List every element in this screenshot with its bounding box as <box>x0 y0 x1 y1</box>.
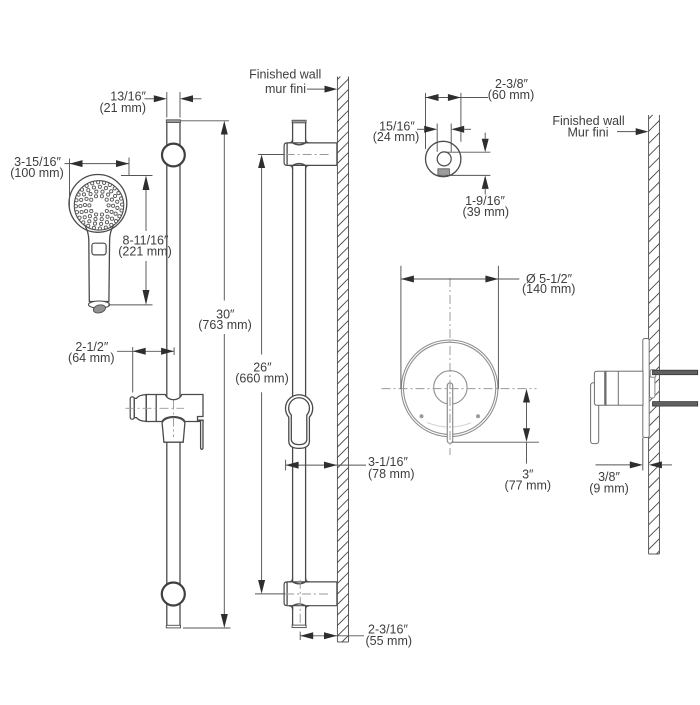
handle hub circle <box>434 371 467 404</box>
handle cap dark band <box>604 372 606 405</box>
holder horizontal centerline <box>126 407 185 409</box>
holder cup (cone mount, left) <box>130 397 134 419</box>
screw hole right <box>476 414 480 418</box>
svg-text:(763 mm): (763 mm) <box>198 318 251 332</box>
dimension 8-11/16in (221 mm) hand shower height <box>108 176 172 305</box>
dimension 3-15/16in (100 mm) head width <box>10 155 129 207</box>
sprayer nozzle tip (gray) <box>92 304 106 315</box>
finished wall (hatched) <box>337 77 348 643</box>
svg-text:(140 mm): (140 mm) <box>522 282 575 296</box>
dimension 2-3/16in (55 mm) bar center to wall <box>300 623 412 648</box>
bottom bracket centerline <box>285 593 331 595</box>
svg-text:(60 mm): (60 mm) <box>488 88 535 102</box>
trim body <box>606 371 643 405</box>
leader arrow to wall <box>307 88 326 90</box>
dimension 15/16in (24 mm) outlet width <box>373 119 471 152</box>
handle outlet end cap <box>89 301 110 308</box>
svg-text:(64 mm): (64 mm) <box>68 351 115 365</box>
supply pipe top <box>653 370 698 375</box>
handle cap <box>594 371 606 405</box>
dimension 3/8in (9 mm) plate to wall <box>589 438 672 496</box>
slide bar bottom end cap <box>166 625 180 628</box>
slide bar top end cap <box>166 120 180 123</box>
svg-text:(24 mm): (24 mm) <box>373 130 420 144</box>
svg-text:(660 mm): (660 mm) <box>235 371 288 385</box>
svg-text:(221 mm): (221 mm) <box>118 245 171 259</box>
svg-text:mur fini: mur fini <box>265 82 306 96</box>
dimension 2-1/2in (64 mm) holder offset <box>68 340 174 393</box>
dimension dia 5-1/2in (140 mm) <box>401 266 576 389</box>
outlet pipe circle <box>437 152 451 166</box>
hand shower spray face circle <box>74 181 123 230</box>
svg-text:Finished wall: Finished wall <box>249 68 321 82</box>
dimension 30in (763 mm) bar length <box>181 121 252 628</box>
lever handle (side, pointing down) <box>591 383 599 444</box>
horizontal centerline <box>382 388 537 390</box>
vertical centerline <box>449 278 451 455</box>
bottom wall bracket <box>284 582 337 606</box>
svg-text:(78 mm): (78 mm) <box>368 467 415 481</box>
supply pipe bottom <box>653 402 698 407</box>
leader arrow to wall <box>617 131 638 133</box>
bar top end cap <box>292 120 306 123</box>
dimension 26in (660 mm) bracket spacing <box>235 155 288 594</box>
svg-text:(9 mm): (9 mm) <box>589 482 629 496</box>
svg-text:(21 mm): (21 mm) <box>99 101 146 115</box>
svg-text:(100 mm): (100 mm) <box>10 166 63 180</box>
dimension 13/16in (21 mm) bar width <box>99 89 201 117</box>
holder clamp (below, around bar) <box>162 417 185 442</box>
finished wall (hatched) <box>649 115 660 554</box>
handle mode button <box>92 243 106 255</box>
holder vertical centerline <box>173 401 175 438</box>
holder ring divider lines <box>145 395 147 422</box>
hose connector (gray) <box>438 169 450 176</box>
bar bottom end cap <box>292 625 306 628</box>
bar-to-bracket fillets (top bracket) <box>289 139 309 169</box>
slide bar (vertical rail) <box>167 123 180 626</box>
lower end knob <box>162 583 185 606</box>
reflection arc <box>427 423 471 428</box>
escutcheon plate (side) <box>643 339 649 438</box>
dimension 2-3/8in (60 mm) flange width <box>426 77 535 149</box>
escutcheon outer ring <box>401 340 498 437</box>
valve cartridge behind wall <box>650 376 655 398</box>
top bracket centerline <box>286 154 331 156</box>
svg-text:(55 mm): (55 mm) <box>366 634 413 648</box>
bar-to-bracket fillets (bottom bracket) <box>289 578 309 609</box>
svg-text:(77 mm): (77 mm) <box>505 479 552 493</box>
svg-text:Mur fini: Mur fini <box>568 126 609 140</box>
dimension 3-1/16in (78 mm) holder to wall <box>286 455 415 481</box>
hand shower holder body (side view) <box>146 395 203 422</box>
slide bar (side view) <box>293 123 306 626</box>
holder lock lever (right) <box>201 420 203 449</box>
hand shower head outer circle <box>69 175 127 233</box>
dimension 3in (77 mm) lever drop <box>452 389 551 493</box>
bottom bracket vertical centerline <box>299 580 301 626</box>
svg-text:(39 mm): (39 mm) <box>463 205 510 219</box>
upper flange knob <box>162 144 185 167</box>
screw hole left <box>420 414 424 418</box>
elbow flange circle <box>426 141 461 176</box>
dimension 1-9/16in (39 mm) outlet to flange bottom <box>444 133 509 219</box>
hand shower handle <box>85 225 114 302</box>
slider holder (keyhole front view) <box>286 395 313 449</box>
lever handle (pointing down) <box>447 383 452 443</box>
top wall bracket <box>284 143 337 166</box>
spray nozzle dots <box>74 181 123 230</box>
